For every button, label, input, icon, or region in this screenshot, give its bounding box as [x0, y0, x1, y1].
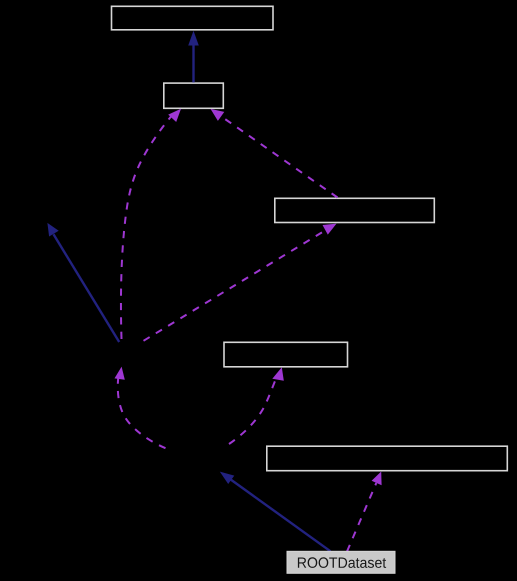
edge purple dashed: hidden node2 to hidden node1 (left bottom curve): [115, 367, 166, 449]
edge purple dashed: box3 top to box2 bottom right: [211, 109, 338, 198]
edge purple dashed: node1 to box3 bottom: [144, 224, 337, 341]
node box5 (lower wide class box): [267, 446, 508, 471]
edge blue solid: ROOTDataset to hidden node2: [220, 472, 331, 552]
node ROOTDataset (current class, gray filled): [287, 551, 395, 573]
edge purple dashed: hidden node2 to box4 bottom: [229, 367, 284, 444]
node box3 (middle right class box): [275, 198, 435, 222]
node box1 (top wide class box, empty): [112, 6, 274, 30]
edge purple dashed: long left curve node1 to box2: [121, 109, 181, 339]
node box2 (small class box under box1): [164, 83, 224, 108]
node box4 (center class box): [224, 342, 348, 367]
edge purple dashed: ROOTDataset to box5 bottom: [347, 472, 382, 552]
edge blue solid: box2 inherits box1: [188, 31, 199, 83]
edge blue solid: from node1 junction up-left to off-diagram node: [47, 223, 119, 342]
